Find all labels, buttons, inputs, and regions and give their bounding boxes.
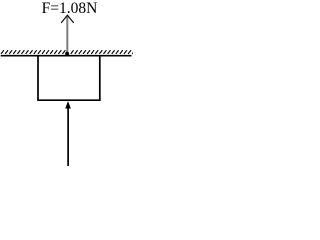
attachment dot at ceiling: [65, 52, 69, 56]
force arrow F shaft: [66, 16, 68, 55]
svg-text:F=1.08N: F=1.08N: [42, 0, 98, 17]
block (hanging box): [38, 56, 100, 100]
force arrow F open head: [62, 15, 74, 22]
support arrow shaft: [67, 108, 69, 167]
support arrow filled head: [65, 101, 71, 108]
ceiling line: [1, 55, 132, 57]
ceiling hatching: [1, 50, 133, 54]
